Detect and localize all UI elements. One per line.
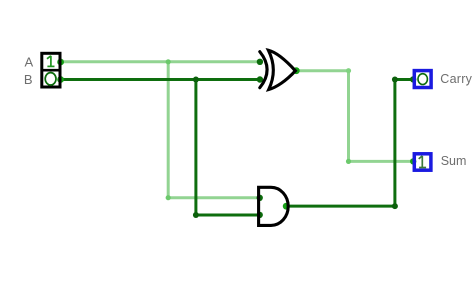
node corner A branch bottom <box>166 195 171 200</box>
wire B branch to AND bottom input (dark green) <box>196 214 260 217</box>
node corner carry wire bottom <box>392 203 398 209</box>
node B output dot <box>57 76 64 83</box>
wire A branch to AND top input (light green) <box>168 196 260 199</box>
node corner sum wire bottom <box>346 159 351 164</box>
node XOR output <box>293 67 300 74</box>
wire corner to Carry box (dark green) <box>395 78 413 81</box>
node corner B branch top <box>193 77 199 83</box>
wire AND output to corner (dark green) <box>286 205 395 208</box>
node AND input top <box>257 195 263 201</box>
node corner carry wire top <box>392 77 398 83</box>
node XOR input bottom <box>257 76 263 82</box>
output Sum value digit 1 <box>419 156 426 168</box>
output box Carry frame <box>414 71 431 88</box>
wire corner to Sum box (light green) <box>349 160 414 163</box>
node A output dot <box>57 59 64 66</box>
wire carry vertical up (dark green) <box>393 80 396 207</box>
input box A B frame <box>41 53 61 87</box>
node AND output <box>283 203 290 210</box>
op: XOR gate U1 input-side arc <box>260 52 267 88</box>
svg-text:Carry: Carry <box>440 72 472 86</box>
op: AND gate U2 <box>259 187 289 225</box>
wire branch A vertical down (light green) <box>167 62 170 198</box>
wire branch B vertical down (dark green) <box>194 80 197 216</box>
node AND input bottom <box>257 212 263 218</box>
wire A to XOR top input (light green, value 1) <box>61 60 260 63</box>
node corner B branch bottom <box>193 212 199 218</box>
node Carry box input <box>410 76 416 82</box>
wire XOR output to corner (light green) <box>296 69 348 72</box>
output Carry value digit 0 <box>418 74 427 85</box>
node Sum box input <box>410 158 416 164</box>
wire B to XOR bottom input (dark green, value 0) <box>61 78 260 81</box>
node corner A branch top <box>166 59 171 64</box>
input B value digit 0 <box>45 73 56 85</box>
svg-text:B: B <box>24 72 33 87</box>
svg-text:Sum: Sum <box>441 154 467 168</box>
input A value digit 1 <box>47 56 55 67</box>
node XOR input top <box>257 59 263 65</box>
node corner sum wire top <box>346 68 351 73</box>
output box Sum frame <box>414 154 431 170</box>
op: XOR gate U1 body <box>268 50 295 89</box>
wire sum vertical down (light green) <box>347 71 350 162</box>
svg-text:A: A <box>25 54 34 69</box>
